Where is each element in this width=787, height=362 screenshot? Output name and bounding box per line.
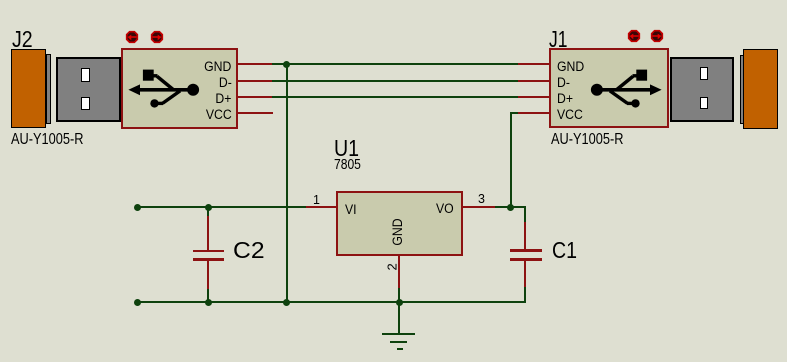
regulator U1 pin 3 stub <box>463 206 496 208</box>
ground symbol bar 3 <box>397 348 403 350</box>
regulator U1 pin 1 stub <box>306 206 336 208</box>
capacitor C2 bottom lead green <box>207 289 209 303</box>
connector J2 body <box>121 48 239 129</box>
wire J1 VCC vertical to VO node <box>510 112 512 207</box>
junction dot GND bottom <box>283 299 290 306</box>
ground symbol bar 1 <box>382 333 415 335</box>
connector J1 plug hole 2 <box>700 97 709 110</box>
regulator U1 pin 1 number <box>313 193 320 206</box>
capacitor C1 reference label <box>552 239 577 262</box>
capacitor C1 bottom plate <box>510 258 542 261</box>
capacitor C2 top lead green <box>207 207 209 216</box>
regulator U1 pin 2 stub <box>398 254 400 289</box>
capacitor C1 bottom lead green <box>524 287 526 303</box>
wire GND net J2 to J1 <box>272 63 518 65</box>
connector J1 pin label GND <box>557 59 584 73</box>
connector J2 reference designator <box>12 28 33 51</box>
connector J2 pin D- stub <box>236 80 272 82</box>
connector J1 pin D+ stub <box>518 96 549 98</box>
regulator U1 value 7805 <box>334 158 361 172</box>
connector J1 metal plug <box>670 57 735 122</box>
regulator U1 pin 2 number rotated <box>385 263 398 270</box>
capacitor C1 bottom lead red <box>524 261 526 288</box>
capacitor C1 top lead green vertical <box>524 206 526 223</box>
wire J1 VCC corner horizontal <box>510 112 518 114</box>
regulator U1 pin name GND rotated <box>389 218 403 245</box>
regulator U1 pin name VI <box>345 202 357 216</box>
capacitor C2 top lead red <box>207 216 209 250</box>
junction dot VO node <box>507 204 514 211</box>
connector J1 reference designator <box>549 28 567 51</box>
connector J1 part number label <box>551 132 623 148</box>
connector J1 USB icon <box>588 62 664 112</box>
connector J1 pin D- stub <box>518 80 549 82</box>
connector J1 pin label D- <box>557 75 570 89</box>
node ground rail left end dot <box>134 299 141 306</box>
connector J1 origin marker left <box>627 29 641 43</box>
capacitor C2 top plate <box>193 250 224 253</box>
connector J2 gray strip <box>46 54 51 124</box>
wire D- net J2 to J1 <box>272 80 518 82</box>
capacitor C1 top plate <box>510 249 542 252</box>
junction dot C2 bottom <box>205 299 212 306</box>
capacitor C1 top wire from VO node <box>510 206 526 208</box>
connector J2 part number label <box>11 132 83 148</box>
wire D+ net J2 to J1 <box>272 96 518 98</box>
connector J2 origin marker left <box>125 30 139 44</box>
connector J2 pin label D- <box>219 75 232 89</box>
ground symbol stem <box>398 303 400 334</box>
connector J2 pin D+ stub <box>236 96 272 98</box>
capacitor C1 top lead red <box>524 222 526 249</box>
regulator U1 body <box>336 191 463 256</box>
connector J1 pin label VCC <box>557 107 583 121</box>
connector J1 pin label D+ <box>557 91 573 105</box>
junction dot GND top <box>283 61 290 68</box>
connector J1 pin VCC stub <box>518 112 549 114</box>
connector J2 pin VCC stub <box>236 112 273 114</box>
wire pin2 to ground rail <box>398 288 400 302</box>
wire pin3 to VO node <box>495 206 510 208</box>
connector J2 orange tab <box>11 49 46 128</box>
regulator U1 reference designator <box>334 137 359 160</box>
wire ground rail bottom <box>137 301 524 303</box>
connector J2 origin marker right <box>150 30 164 44</box>
connector J2 USB icon <box>126 62 202 112</box>
wire input rail top <box>137 206 306 208</box>
regulator U1 pin 3 number <box>478 192 485 205</box>
connector J2 pin label D+ <box>216 91 232 105</box>
connector J1 gray strip <box>740 55 744 124</box>
connector J2 plug hole 1 <box>81 68 90 81</box>
connector J2 pin label VCC <box>206 107 232 121</box>
connector J2 metal plug <box>56 57 121 122</box>
junction dot C2 top <box>205 204 212 211</box>
connector J2 pin label GND <box>204 59 231 73</box>
ground symbol bar 2 <box>390 341 407 343</box>
junction dot pin2 rail <box>396 299 403 306</box>
capacitor C2 bottom lead red <box>207 261 209 289</box>
node input rail left end dot <box>134 204 141 211</box>
connector J2 pin GND stub <box>236 63 272 65</box>
capacitor C2 reference label <box>233 239 265 262</box>
regulator U1 pin name VO <box>436 201 454 215</box>
connector J2 plug hole 2 <box>81 97 90 110</box>
connector J1 origin marker right <box>650 29 664 43</box>
wire GND vertical drop <box>286 64 288 303</box>
capacitor C2 bottom plate <box>193 258 224 261</box>
connector J1 pin GND stub <box>518 63 549 65</box>
connector J1 body <box>549 48 669 128</box>
connector J1 plug hole 1 <box>700 67 709 80</box>
connector J1 orange tab <box>743 49 778 129</box>
